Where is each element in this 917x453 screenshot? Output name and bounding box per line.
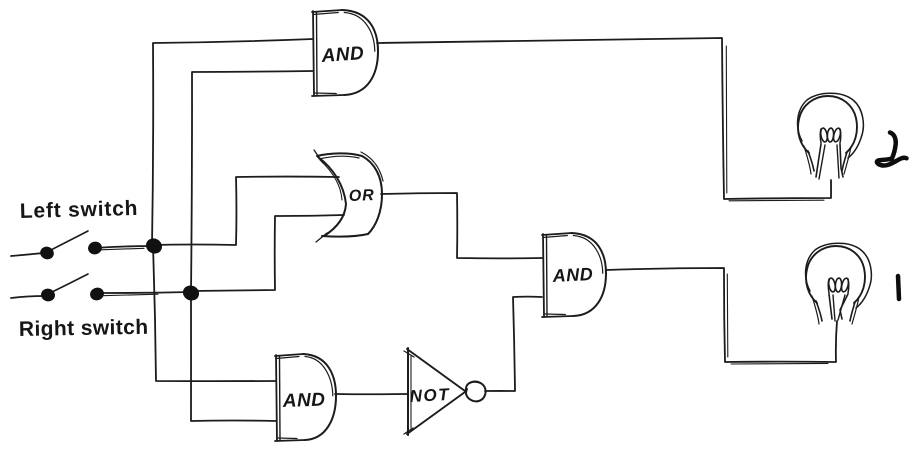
svg-text:Left switch: Left switch xyxy=(20,197,139,223)
svg-text:AND: AND xyxy=(320,43,365,67)
svg-text:AND: AND xyxy=(551,264,593,286)
svg-text:OR: OR xyxy=(349,187,376,205)
svg-text:Right switch: Right switch xyxy=(19,316,149,341)
svg-text:AND: AND xyxy=(281,390,325,413)
svg-text:NOT: NOT xyxy=(409,385,450,406)
